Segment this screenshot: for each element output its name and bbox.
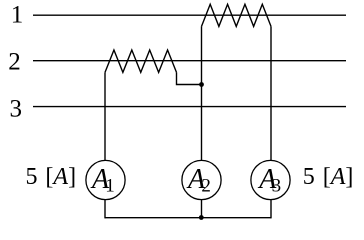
svg-text:3: 3 — [10, 96, 23, 123]
svg-text:[A]: [A] — [323, 164, 354, 190]
svg-text:1: 1 — [11, 2, 24, 29]
svg-text:1: 1 — [105, 175, 115, 196]
svg-text:5: 5 — [303, 164, 315, 190]
svg-text:2: 2 — [8, 49, 21, 76]
svg-text:5: 5 — [26, 164, 38, 190]
svg-text:2: 2 — [201, 175, 211, 196]
svg-text:3: 3 — [272, 175, 282, 196]
svg-text:[A]: [A] — [45, 164, 76, 190]
